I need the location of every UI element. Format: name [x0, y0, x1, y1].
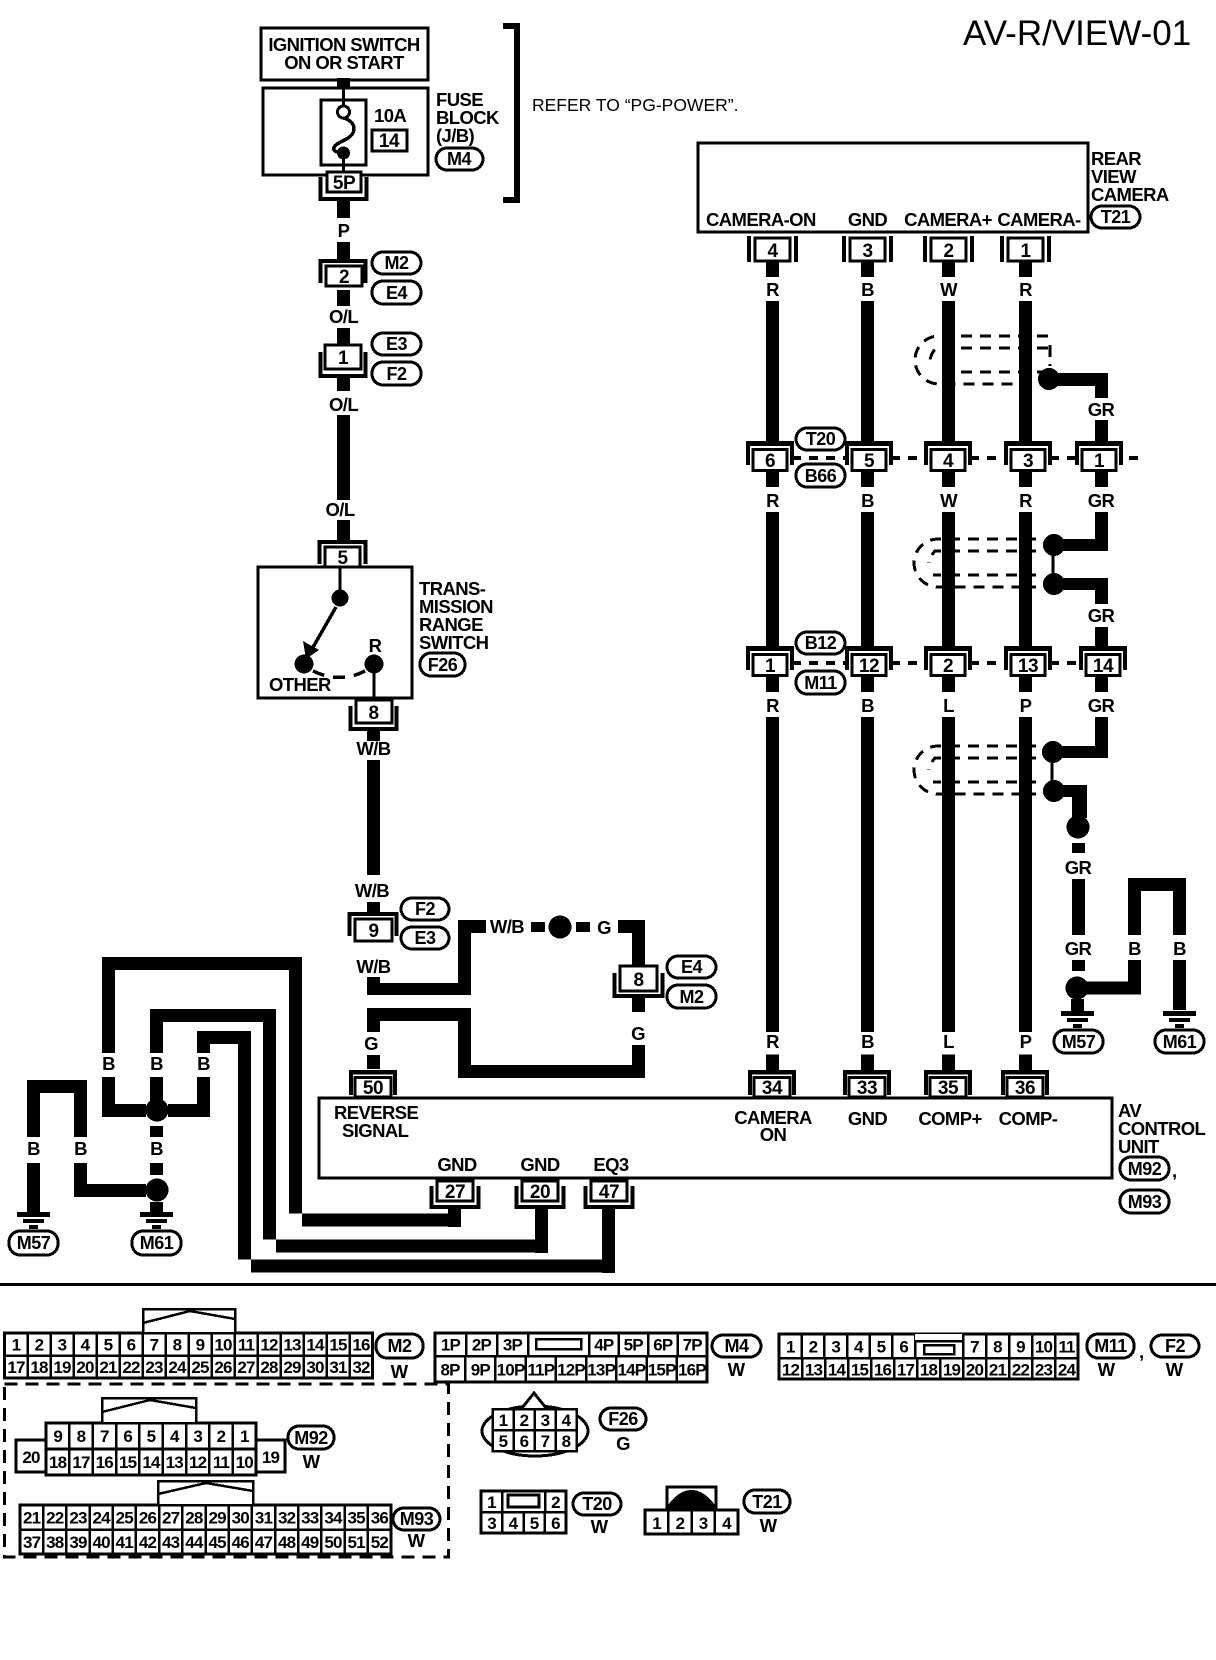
- wire B2 upper segment: [150, 1022, 163, 1053]
- svg-text:B: B: [861, 490, 874, 511]
- labels R B W R GR below row 1: [766, 490, 1114, 511]
- svg-text:GR: GR: [1088, 695, 1115, 716]
- wire B3 upper segment: [197, 1044, 210, 1053]
- connector grid T20: [481, 1491, 566, 1533]
- svg-text:29: 29: [283, 1358, 301, 1377]
- svg-text:B: B: [1128, 938, 1141, 959]
- connector grid M2: [5, 1333, 373, 1378]
- AV terminal 33: [843, 1070, 891, 1099]
- svg-text:32: 32: [278, 1509, 296, 1528]
- svg-text:G: G: [616, 1433, 630, 1454]
- svg-text:B: B: [150, 1138, 163, 1159]
- svg-text:,: ,: [1172, 1160, 1177, 1181]
- svg-text:29: 29: [208, 1509, 226, 1528]
- wire G bottom horizontal of loop: [458, 1065, 645, 1078]
- svg-text:14: 14: [306, 1336, 325, 1355]
- connector oval M2: [667, 985, 716, 1008]
- svg-text:P: P: [338, 220, 350, 241]
- svg-text:GND: GND: [848, 1108, 888, 1129]
- svg-text:22: 22: [46, 1509, 64, 1528]
- wire from splice to B wire: [1077, 982, 1141, 995]
- svg-text:50: 50: [324, 1533, 342, 1552]
- svg-text:9: 9: [53, 1427, 62, 1446]
- wire W/B nub below connector 8: [367, 731, 380, 741]
- svg-text:1: 1: [786, 1338, 795, 1357]
- svg-text:14: 14: [379, 131, 400, 152]
- M93 lock tab: [158, 1481, 253, 1505]
- wire B col2 to AV unit: [861, 717, 874, 1032]
- connector oval F26: [420, 653, 465, 676]
- junction row 2: connector 12: [845, 646, 893, 677]
- camera terminal 1: [1000, 236, 1051, 262]
- svg-text:M11: M11: [1094, 1336, 1127, 1356]
- wire O/L long segment: [337, 415, 350, 500]
- wire P segment to connector 2: [337, 242, 350, 259]
- wire GR above shield 2: [1095, 512, 1108, 551]
- svg-text:26: 26: [214, 1358, 232, 1377]
- svg-text:OTHER: OTHER: [269, 674, 331, 695]
- svg-text:ON: ON: [760, 1124, 787, 1145]
- svg-text:48: 48: [278, 1533, 296, 1552]
- svg-text:M93: M93: [400, 1509, 434, 1529]
- label TRANS-MISSION RANGE SWITCH: [419, 578, 493, 653]
- svg-text:1P: 1P: [441, 1336, 461, 1355]
- connector grid M11: [779, 1334, 1078, 1380]
- svg-text:13: 13: [283, 1336, 301, 1355]
- ground oval M61 left: [132, 1231, 181, 1255]
- svg-text:L: L: [943, 1031, 954, 1052]
- wire P segment below 5P: [337, 201, 350, 218]
- junction row 2: connector 14: [1079, 646, 1127, 677]
- svg-text:17: 17: [72, 1453, 90, 1472]
- wire top horizontal to B wire 3: [197, 1031, 251, 1044]
- svg-text:47: 47: [599, 1182, 619, 1203]
- svg-text:50: 50: [363, 1078, 383, 1099]
- svg-text:M2: M2: [387, 1336, 411, 1356]
- svg-text:B12: B12: [805, 633, 837, 653]
- connector oval M2: [372, 252, 421, 274]
- svg-text:W/B: W/B: [355, 880, 389, 901]
- svg-text:4: 4: [509, 1514, 519, 1533]
- svg-text:W: W: [1166, 1359, 1184, 1380]
- wire R col1 to AV unit: [766, 717, 779, 1032]
- dashed links row 2: [792, 661, 1079, 665]
- wire nub ignition to fuse block: [337, 78, 350, 88]
- wire G down to label: [367, 1008, 380, 1032]
- wire B1 elbow to splice: [102, 1077, 146, 1117]
- svg-text:8: 8: [993, 1338, 1002, 1357]
- svg-text:26: 26: [139, 1509, 157, 1528]
- svg-text:6: 6: [123, 1427, 132, 1446]
- svg-text:15: 15: [119, 1453, 137, 1472]
- wire step from shield3 bottom dot: [1060, 785, 1087, 818]
- splice dot GR: [1067, 816, 1090, 839]
- dashed arc between contacts: [313, 671, 365, 678]
- svg-text:ON OR START: ON OR START: [284, 52, 405, 73]
- svg-text:16: 16: [352, 1336, 370, 1355]
- svg-text:8: 8: [173, 1336, 182, 1355]
- svg-text:M11: M11: [804, 673, 837, 693]
- svg-text:7: 7: [970, 1338, 979, 1357]
- svg-text:22: 22: [1012, 1361, 1030, 1380]
- svg-text:10: 10: [214, 1336, 232, 1355]
- svg-text:T21: T21: [1101, 207, 1131, 227]
- ground U-loop left pair: [27, 1080, 87, 1137]
- svg-text:10: 10: [236, 1453, 254, 1472]
- svg-text:41: 41: [116, 1533, 134, 1552]
- svg-text:6P: 6P: [653, 1336, 673, 1355]
- connector oval M92: [1120, 1157, 1177, 1181]
- svg-text:SWITCH: SWITCH: [419, 632, 489, 653]
- svg-text:2: 2: [339, 267, 349, 288]
- wire from shield2 top dot to GR: [1060, 539, 1108, 551]
- connector oval M4: [436, 148, 483, 170]
- B loop: top horizontal: [1128, 878, 1186, 891]
- wire R col1 row1-row2: [766, 512, 779, 646]
- svg-text:B: B: [27, 1138, 40, 1159]
- wire nub below terminal 47: [602, 1209, 615, 1273]
- svg-text:40: 40: [93, 1533, 111, 1552]
- connector oval F26 (pinout): [600, 1408, 646, 1454]
- thin link between shield3 dots: [1051, 758, 1054, 784]
- svg-text:3: 3: [541, 1411, 550, 1430]
- svg-text:23: 23: [1035, 1361, 1053, 1380]
- svg-text:4P: 4P: [594, 1336, 614, 1355]
- svg-text:B66: B66: [805, 466, 837, 486]
- dash after splice dot: [576, 922, 590, 932]
- svg-text:R: R: [766, 1031, 779, 1052]
- AV terminal 35: [924, 1070, 972, 1099]
- svg-text:SIGNAL: SIGNAL: [342, 1120, 409, 1141]
- M92 lock tab: [102, 1398, 196, 1423]
- wire G nub below connector 8: [632, 998, 645, 1012]
- svg-text:1: 1: [765, 656, 776, 677]
- svg-text:13: 13: [1018, 656, 1038, 677]
- svg-text:G: G: [631, 1023, 645, 1044]
- wire GR from shield 1 drain: [1055, 373, 1108, 398]
- svg-text:20: 20: [966, 1361, 984, 1380]
- connector oval M11: [796, 671, 845, 694]
- splice dot to grounds: [1066, 977, 1089, 1000]
- svg-text:1: 1: [1094, 451, 1105, 472]
- connector 8 (E4/M2): [615, 966, 663, 996]
- wire from 47: down-left-up staircase: [238, 1044, 602, 1273]
- svg-text:T21: T21: [752, 1492, 782, 1512]
- svg-text:25: 25: [116, 1509, 134, 1528]
- svg-text:1: 1: [12, 1336, 21, 1355]
- fuse block (J/B) box: [263, 88, 428, 175]
- svg-text:9: 9: [368, 921, 378, 942]
- connector oval E3: [372, 333, 421, 355]
- connector grid T21: [645, 1487, 738, 1534]
- svg-text:7P: 7P: [683, 1336, 703, 1355]
- svg-text:19: 19: [262, 1448, 280, 1467]
- splice dot B1: [146, 1099, 169, 1122]
- svg-text:47: 47: [255, 1533, 273, 1552]
- svg-text:5: 5: [104, 1336, 113, 1355]
- svg-text:3: 3: [862, 241, 872, 262]
- svg-text:35: 35: [348, 1509, 366, 1528]
- svg-text:GND: GND: [848, 209, 888, 230]
- svg-text:20: 20: [76, 1358, 94, 1377]
- svg-text:15: 15: [851, 1361, 869, 1380]
- svg-text:M92: M92: [1128, 1159, 1162, 1179]
- svg-text:3: 3: [1023, 451, 1033, 472]
- svg-text:R: R: [369, 635, 382, 656]
- splice dot B2: [146, 1179, 169, 1202]
- svg-text:28: 28: [260, 1358, 278, 1377]
- wire R nub below terminal 4: [766, 262, 779, 277]
- svg-text:3: 3: [699, 1514, 708, 1533]
- junction row 1: connector 1: [1075, 441, 1123, 472]
- AV terminal 34: [748, 1070, 796, 1099]
- separator line: [0, 1283, 1216, 1286]
- labels B B left pair: [27, 1138, 87, 1159]
- ground oval M61: [1155, 1030, 1204, 1053]
- dash before splice dot: [531, 922, 545, 932]
- svg-text:M4: M4: [724, 1336, 748, 1356]
- svg-text:4: 4: [722, 1514, 732, 1533]
- svg-text:36: 36: [371, 1509, 389, 1528]
- svg-text:(J/B): (J/B): [436, 125, 475, 146]
- wire B col2 to junction row 1: [861, 301, 874, 441]
- svg-text:5: 5: [499, 1432, 508, 1451]
- ground symbol M61 left: [140, 1212, 173, 1229]
- connector grid M93: [20, 1505, 391, 1554]
- svg-text:F2: F2: [386, 364, 406, 384]
- junction row 1: connector 3: [1004, 441, 1052, 472]
- svg-text:42: 42: [139, 1533, 157, 1552]
- svg-text:30: 30: [306, 1358, 324, 1377]
- connector 5: [320, 542, 366, 569]
- svg-text:8: 8: [562, 1432, 571, 1451]
- svg-text:E3: E3: [414, 928, 436, 948]
- svg-text:CAMERA-ON: CAMERA-ON: [706, 209, 816, 230]
- svg-text:B: B: [102, 1053, 115, 1074]
- wire horizontal to connector 8: [618, 920, 645, 933]
- transmission range switch box F26: [258, 567, 412, 698]
- AV control unit box: [319, 1098, 1112, 1178]
- connector oval B12: [796, 632, 845, 654]
- svg-text:2: 2: [520, 1411, 529, 1430]
- svg-text:M93: M93: [1128, 1192, 1162, 1212]
- wire below splice to ground M57: [1071, 999, 1084, 1011]
- wire B left to ground M57: [27, 1163, 40, 1212]
- svg-text:18: 18: [920, 1361, 938, 1380]
- svg-text:11: 11: [238, 1336, 255, 1355]
- connector 2 (M2/E4): [321, 261, 366, 288]
- svg-text:21: 21: [99, 1358, 117, 1377]
- wire W/B long segment: [367, 760, 380, 875]
- svg-text:7: 7: [150, 1336, 159, 1355]
- svg-text:P: P: [1020, 695, 1032, 716]
- svg-text:44: 44: [185, 1533, 204, 1552]
- ground oval M57: [1054, 1030, 1103, 1053]
- svg-text:W: W: [303, 1451, 321, 1472]
- svg-text:49: 49: [301, 1533, 319, 1552]
- svg-text:CAMERA: CAMERA: [1091, 184, 1169, 205]
- svg-text:18: 18: [49, 1453, 67, 1472]
- svg-text:2: 2: [943, 241, 953, 262]
- svg-text:14P: 14P: [617, 1361, 645, 1380]
- svg-text:19: 19: [53, 1358, 71, 1377]
- svg-text:16P: 16P: [678, 1361, 706, 1380]
- svg-text:B: B: [861, 1031, 874, 1052]
- svg-text:19: 19: [943, 1361, 961, 1380]
- svg-text:GR: GR: [1065, 857, 1092, 878]
- connector 9 (F2/E3): [350, 914, 397, 942]
- svg-text:15: 15: [329, 1336, 347, 1355]
- svg-text:13: 13: [805, 1361, 823, 1380]
- svg-text:R: R: [766, 490, 779, 511]
- svg-text:17: 17: [7, 1358, 25, 1377]
- svg-text:2P: 2P: [472, 1336, 492, 1355]
- wire O/L segment below connector 1: [337, 378, 350, 391]
- svg-text:B: B: [197, 1053, 210, 1074]
- wire R col4 row1-row2: [1019, 512, 1032, 646]
- wire nub below terminal 27: [448, 1209, 461, 1227]
- connector grid M92: [16, 1423, 285, 1475]
- junction row 1: connector 6: [746, 441, 794, 472]
- svg-text:13P: 13P: [587, 1361, 615, 1380]
- svg-text:8: 8: [633, 970, 643, 991]
- svg-text:36: 36: [1015, 1078, 1035, 1099]
- wire R nub below terminal 1: [1019, 262, 1032, 277]
- AV terminal 36: [1001, 1070, 1049, 1099]
- svg-text:,: ,: [1139, 1341, 1144, 1362]
- svg-text:4: 4: [562, 1411, 572, 1430]
- svg-text:B: B: [150, 1053, 163, 1074]
- wire G vertical up left of loop: [458, 1008, 471, 1078]
- svg-text:COMP+: COMP+: [918, 1108, 982, 1129]
- connector 8 below switch: [351, 700, 397, 729]
- svg-text:3P: 3P: [503, 1336, 523, 1355]
- dashed option box around M92/M93: [5, 1384, 449, 1557]
- B loop: left vertical: [1128, 884, 1141, 935]
- label AV CONTROL UNIT: [1118, 1100, 1206, 1157]
- svg-text:16: 16: [96, 1453, 114, 1472]
- wire O/L segment below connector 2: [337, 290, 350, 306]
- svg-text:W: W: [940, 490, 958, 511]
- shield 1 drain dot: [1038, 368, 1060, 390]
- svg-text:46: 46: [232, 1533, 250, 1552]
- svg-text:10: 10: [1035, 1338, 1053, 1357]
- svg-text:1: 1: [499, 1411, 508, 1430]
- svg-text:14: 14: [828, 1361, 847, 1380]
- svg-text:18: 18: [30, 1358, 48, 1377]
- connector oval E3: [401, 927, 449, 949]
- svg-text:R: R: [766, 279, 779, 300]
- svg-text:2: 2: [809, 1338, 818, 1357]
- B loop: right vertical: [1173, 884, 1186, 935]
- wire nubs below junction row 2: [766, 677, 1108, 692]
- connector oval T20: [796, 428, 845, 450]
- wire GR to junction row 2: [1095, 627, 1108, 646]
- fuse 10A symbol: [334, 88, 354, 174]
- wire nubs above AV terminals: [766, 1055, 1032, 1071]
- shield 2 bottom drain dot: [1043, 573, 1065, 595]
- svg-text:10A: 10A: [374, 105, 406, 126]
- svg-text:M61: M61: [1163, 1032, 1197, 1052]
- svg-text:EQ3: EQ3: [593, 1154, 629, 1175]
- connector 5P: [321, 172, 367, 199]
- wire B right elbow to splice 2: [74, 1163, 146, 1197]
- wire B col2 row1-row2: [861, 512, 874, 646]
- camera terminal 3: [842, 236, 893, 262]
- connector oval F2 (pinout): [1151, 1335, 1199, 1380]
- svg-text:1: 1: [487, 1493, 496, 1512]
- connector oval M11 (pinout): [1087, 1334, 1144, 1380]
- svg-text:T20: T20: [582, 1494, 612, 1514]
- svg-text:5: 5: [864, 451, 875, 472]
- svg-text:20: 20: [22, 1448, 40, 1467]
- svg-text:M2: M2: [384, 253, 408, 273]
- svg-text:2: 2: [35, 1336, 44, 1355]
- wire nub below terminal 20: [535, 1209, 548, 1253]
- svg-text:O/L: O/L: [329, 306, 358, 327]
- svg-text:2: 2: [943, 656, 953, 677]
- camera terminal 2: [923, 236, 974, 262]
- splice dot: [549, 916, 572, 939]
- connector oval F2: [401, 898, 449, 920]
- svg-text:REFER TO “PG-POWER”.: REFER TO “PG-POWER”.: [532, 95, 738, 115]
- svg-text:12: 12: [189, 1453, 207, 1472]
- wire R col4 to junction row 1: [1019, 301, 1032, 441]
- wire top horizontal to B wire 1: [102, 957, 302, 970]
- svg-text:B: B: [74, 1138, 87, 1159]
- wire W/B elbow down-right: [367, 977, 471, 995]
- AV terminal 47 below box: [586, 1181, 633, 1207]
- svg-text:28: 28: [185, 1509, 203, 1528]
- svg-text:4: 4: [170, 1427, 180, 1446]
- svg-text:E3: E3: [386, 334, 408, 354]
- wire W/B nub above connector 9: [367, 902, 380, 912]
- shield 1 around camera+/camera-: [915, 336, 1050, 384]
- svg-text:M4: M4: [447, 149, 471, 169]
- svg-text:34: 34: [324, 1509, 343, 1528]
- wire B2 segment to splice: [150, 1077, 163, 1102]
- svg-text:4: 4: [81, 1336, 91, 1355]
- svg-text:GND: GND: [437, 1154, 477, 1175]
- connector oval M93 (pinout): [393, 1508, 440, 1551]
- junction row 1: connector 5: [845, 441, 893, 472]
- svg-text:11: 11: [213, 1453, 230, 1472]
- svg-text:5P: 5P: [624, 1336, 644, 1355]
- connector oval T20 (pinout): [573, 1493, 621, 1537]
- svg-text:21: 21: [989, 1361, 1007, 1380]
- svg-text:G: G: [597, 917, 611, 938]
- connector oval M4 (pinout): [712, 1335, 761, 1380]
- svg-text:52: 52: [371, 1533, 389, 1552]
- svg-text:30: 30: [232, 1509, 250, 1528]
- svg-text:E4: E4: [386, 283, 408, 303]
- wire L col3 to AV unit: [942, 717, 955, 1032]
- svg-text:G: G: [364, 1033, 378, 1054]
- svg-text:GND: GND: [520, 1154, 560, 1175]
- svg-text:F2: F2: [1165, 1336, 1185, 1356]
- svg-text:3: 3: [831, 1338, 840, 1357]
- svg-text:45: 45: [208, 1533, 226, 1552]
- wire O/L segment to connector 5: [337, 520, 350, 540]
- svg-text:GR: GR: [1065, 938, 1092, 959]
- wire W col3 to junction row 1: [942, 301, 955, 441]
- svg-text:7: 7: [100, 1427, 109, 1446]
- junction row 2: connector 1: [746, 646, 794, 677]
- svg-text:15P: 15P: [648, 1361, 676, 1380]
- svg-text:6: 6: [551, 1514, 560, 1533]
- junction row 1: connector 4: [924, 441, 972, 472]
- shield 3 bottom drain dot: [1043, 780, 1065, 802]
